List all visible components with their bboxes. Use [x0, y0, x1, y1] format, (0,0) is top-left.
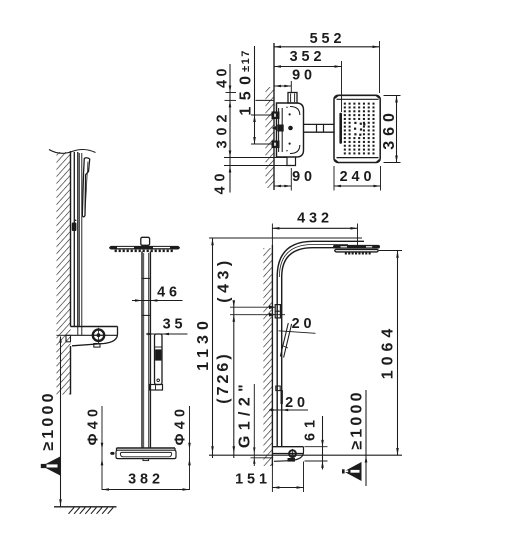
extension line 352 to nozzle plate	[341, 61, 343, 112]
rain head knob (front)	[141, 237, 150, 245]
dimension 46	[132, 300, 183, 302]
wall hatching (right view)	[263, 248, 272, 466]
head nozzles (side)	[345, 252, 347, 254]
dimension 240 (plan)	[334, 185, 381, 187]
dimension >=1000 (left view)	[57, 334, 71, 336]
hand shower holder (front)	[150, 385, 163, 391]
extension line knob center	[290, 81, 292, 93]
svg-text:61: 61	[302, 415, 318, 441]
svg-text:46: 46	[157, 284, 181, 300]
svg-text:352: 352	[290, 49, 326, 65]
bottom pipe stub of valve (plan)	[287, 157, 296, 166]
corner tick marks of head box	[335, 95, 339, 98]
bottom bracket (side view)	[71, 326, 118, 328]
svg-text:90: 90	[292, 169, 316, 185]
dimension 61	[305, 446, 328, 448]
wall hatching (plan view)	[266, 87, 275, 188]
valve small dots	[289, 113, 291, 115]
mixer valve body (plan view)	[277, 103, 304, 157]
rain head nozzles (front)	[115, 250, 117, 252]
column clamp detail lower	[276, 386, 280, 391]
floor level triangle symbol (left)	[42, 457, 60, 476]
bracket black tab	[288, 458, 296, 462]
dimension line (43)/(726)	[233, 303, 235, 458]
bracket bottom tab	[94, 344, 100, 348]
svg-text:1130: 1130	[195, 316, 212, 371]
dimension 35	[146, 333, 188, 335]
svg-text:432: 432	[297, 210, 333, 226]
wall break squiggle	[49, 149, 96, 153]
dimension 352 (plan)	[274, 66, 342, 68]
top extension line of chain	[209, 237, 362, 239]
nozzle dot grid	[344, 103, 346, 105]
dimension 432	[272, 227, 357, 229]
base left anchor dot	[110, 452, 114, 455]
svg-text:(43): (43)	[216, 256, 233, 302]
svg-text:20: 20	[285, 395, 309, 411]
svg-text:240: 240	[340, 169, 376, 185]
bracket knob (side)	[289, 450, 296, 457]
svg-text:Φ40: Φ40	[172, 405, 188, 446]
svg-text:≥1000: ≥1000	[349, 389, 366, 449]
dimension 1064	[379, 250, 402, 252]
(43) extension lines with arrows to column	[230, 306, 275, 308]
svg-text:150: 150	[238, 69, 255, 115]
bottom bracket (side view)	[272, 446, 303, 448]
shower arm (plan view)	[304, 123, 335, 125]
svg-text:(726): (726)	[215, 351, 232, 403]
svg-text:151: 151	[235, 471, 271, 487]
svg-text:35: 35	[163, 316, 187, 332]
upper wall supply fitting (black)	[272, 112, 280, 120]
hand shower handle (side view, slanted)	[280, 323, 288, 357]
wall plug below bracket	[66, 335, 71, 342]
svg-text:382: 382	[128, 471, 164, 487]
svg-text:552: 552	[310, 31, 346, 47]
svg-text:360: 360	[381, 108, 398, 150]
mounting plate lines in valve body	[278, 108, 280, 152]
dimension 150 plus-minus 17 (plan)	[254, 46, 256, 144]
lower wall supply fitting (black)	[272, 141, 280, 149]
svg-text:20: 20	[292, 316, 316, 332]
bracket knob circle	[93, 330, 104, 341]
floor reference line (right view)	[209, 454, 402, 456]
diverter knob on valve body	[288, 93, 297, 104]
bar pass-through in bracket	[77, 327, 79, 335]
dimension phi40 right	[189, 406, 191, 490]
valve center dot	[288, 126, 293, 131]
center outlet fitting (black)	[277, 125, 283, 132]
slider clamp on bar	[72, 223, 77, 232]
floor line (left view)	[54, 506, 117, 508]
dimension phi40 left	[101, 406, 103, 490]
column (front view)	[141, 252, 143, 449]
rain head disc (front)	[109, 246, 180, 250]
overhead head (side view)	[333, 245, 380, 249]
svg-text:1064: 1064	[380, 324, 397, 380]
wall line (left view)	[70, 151, 72, 327]
column curved arm (side view)	[276, 277, 278, 447]
floor hatching	[69, 508, 75, 514]
svg-text:40: 40	[212, 168, 228, 194]
dimension 90 bottom (plan)	[274, 185, 291, 187]
floor level triangle symbol (right)	[344, 462, 362, 481]
hand shower (front view)	[155, 334, 163, 385]
dimension 90 top (plan)	[274, 85, 291, 87]
overhead shower head box (plan view)	[334, 95, 380, 162]
dimension 382	[102, 489, 190, 491]
slide bar (side view)	[73, 152, 75, 327]
extension line right 552	[379, 41, 381, 93]
wall line (plan view)	[273, 43, 275, 190]
column joints	[142, 277, 150, 279]
extension lines bottom stub 40	[224, 157, 287, 159]
left dimension chain line 40/302/40	[229, 64, 231, 193]
dimension >=1000 (right view)	[365, 390, 367, 486]
svg-text:302: 302	[214, 109, 230, 148]
dimension 151	[271, 462, 273, 493]
hand shower (side view) slanted	[82, 158, 89, 217]
chain dimension line 1130	[212, 238, 214, 458]
svg-text:±17: ±17	[240, 49, 252, 72]
svg-text:Φ40: Φ40	[85, 405, 101, 446]
small connection dim near bracket	[253, 384, 255, 466]
svg-text:G1/2": G1/2"	[236, 379, 253, 448]
center spray dots	[354, 122, 356, 124]
wall hatching (left view)	[57, 152, 71, 395]
hand shower holder on column (side view)	[275, 305, 280, 318]
chain ticks and arrows	[226, 92, 237, 94]
nozzle plate black bar	[339, 113, 342, 144]
svg-text:≥1000: ≥1000	[40, 390, 57, 450]
dimension 360 (plan)	[384, 95, 401, 97]
svg-text:40: 40	[215, 65, 231, 88]
base plate (front view)	[117, 447, 176, 449]
svg-text:90: 90	[292, 68, 316, 84]
dimension 552 (plan)	[274, 46, 380, 48]
wall line (right view)	[271, 245, 273, 466]
base bottom tab (front)	[143, 459, 149, 461]
